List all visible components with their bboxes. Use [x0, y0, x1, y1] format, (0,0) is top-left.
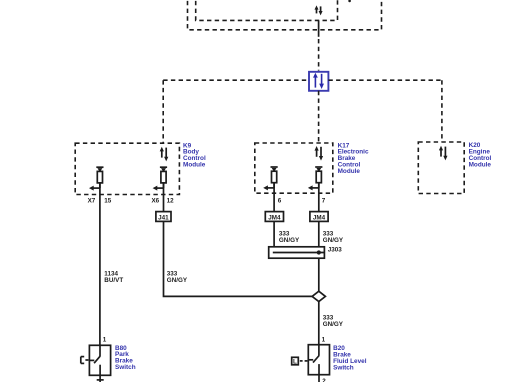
svg-text:333GN/GY: 333GN/GY [279, 230, 300, 244]
svg-text:15: 15 [104, 198, 112, 205]
svg-text:333GN/GY: 333GN/GY [323, 230, 344, 244]
svg-text:6: 6 [278, 198, 282, 205]
svg-text:JM4: JM4 [268, 214, 281, 221]
svg-text:J303: J303 [328, 247, 343, 254]
svg-text:333GN/GY: 333GN/GY [323, 314, 344, 328]
svg-text:X6: X6 [151, 198, 159, 205]
svg-text:K17ElectronicBrakeControlModul: K17ElectronicBrakeControlModule [338, 142, 369, 175]
svg-text:J41: J41 [158, 214, 169, 221]
svg-text:2: 2 [322, 378, 326, 382]
svg-text:1: 1 [322, 337, 326, 344]
svg-text:X7: X7 [88, 198, 96, 205]
svg-text:K20EngineControlModule: K20EngineControlModule [469, 142, 492, 168]
svg-text:1: 1 [103, 337, 107, 344]
svg-text:7: 7 [322, 198, 326, 205]
svg-text:JM4: JM4 [313, 214, 326, 221]
svg-text:333GN/GY: 333GN/GY [167, 270, 188, 284]
svg-text:12: 12 [167, 198, 175, 205]
svg-text:L: L [293, 358, 297, 365]
svg-text:B80ParkBrakeSwitch: B80ParkBrakeSwitch [115, 345, 136, 371]
svg-text:K9BodyControlModule: K9BodyControlModule [183, 142, 206, 168]
svg-text:1134BU/VT: 1134BU/VT [104, 270, 123, 284]
svg-text:B20BrakeFluid LevelSwitch: B20BrakeFluid LevelSwitch [333, 345, 367, 372]
